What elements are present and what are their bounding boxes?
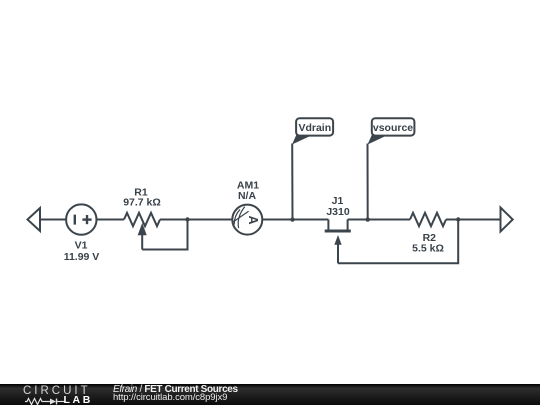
wire R2 feedback to gate (338, 220, 458, 264)
title line (113, 384, 238, 395)
node vsource junction (366, 217, 370, 221)
svg-text:J310: J310 (326, 206, 350, 218)
node Vdrain junction (290, 217, 294, 221)
voltage source V1 (66, 204, 96, 234)
wire Vdrain flag stem (291, 144, 293, 220)
flag vsource (368, 118, 415, 144)
node junction R1 wiper (185, 217, 189, 221)
svg-text:97.7 kΩ: 97.7 kΩ (123, 197, 161, 209)
footer bar (0, 384, 540, 405)
svg-text:Vdrain: Vdrain (298, 122, 331, 134)
svg-text:V1: V1 (75, 239, 88, 251)
resistor R2 (410, 213, 446, 226)
url line (113, 392, 227, 403)
port P1 (left terminal) (28, 208, 41, 231)
wire V1 to R1 (97, 219, 125, 221)
logo CIRCUIT (23, 385, 91, 397)
wire JFET source to R2 (348, 219, 410, 221)
node R2 right junction (456, 217, 460, 221)
logo LAB (64, 394, 93, 406)
port P2 (right terminal) (501, 208, 513, 232)
logo schematic squiggle (25, 397, 65, 406)
wire AM1 to JFET drain (262, 219, 328, 221)
resistor R1 (potentiometer) (124, 213, 160, 226)
svg-text:5.5 kΩ: 5.5 kΩ (412, 242, 444, 254)
wire vsource flag stem (367, 144, 369, 220)
svg-text:A: A (246, 215, 260, 224)
svg-text:11.99 V: 11.99 V (64, 251, 100, 263)
wire R1 to AM1 (160, 219, 232, 221)
ammeter AM1 (232, 205, 262, 235)
wire port to V1 (40, 219, 66, 221)
svg-text:vsource: vsource (373, 122, 413, 134)
transistor J1 (n-JFET) (325, 220, 351, 264)
wire R1 wiper loop (142, 220, 187, 250)
wire R2 to port (446, 219, 501, 221)
R1 wiper arrow (139, 226, 145, 234)
flag Vdrain (292, 118, 333, 144)
svg-text:N/A: N/A (238, 190, 257, 202)
